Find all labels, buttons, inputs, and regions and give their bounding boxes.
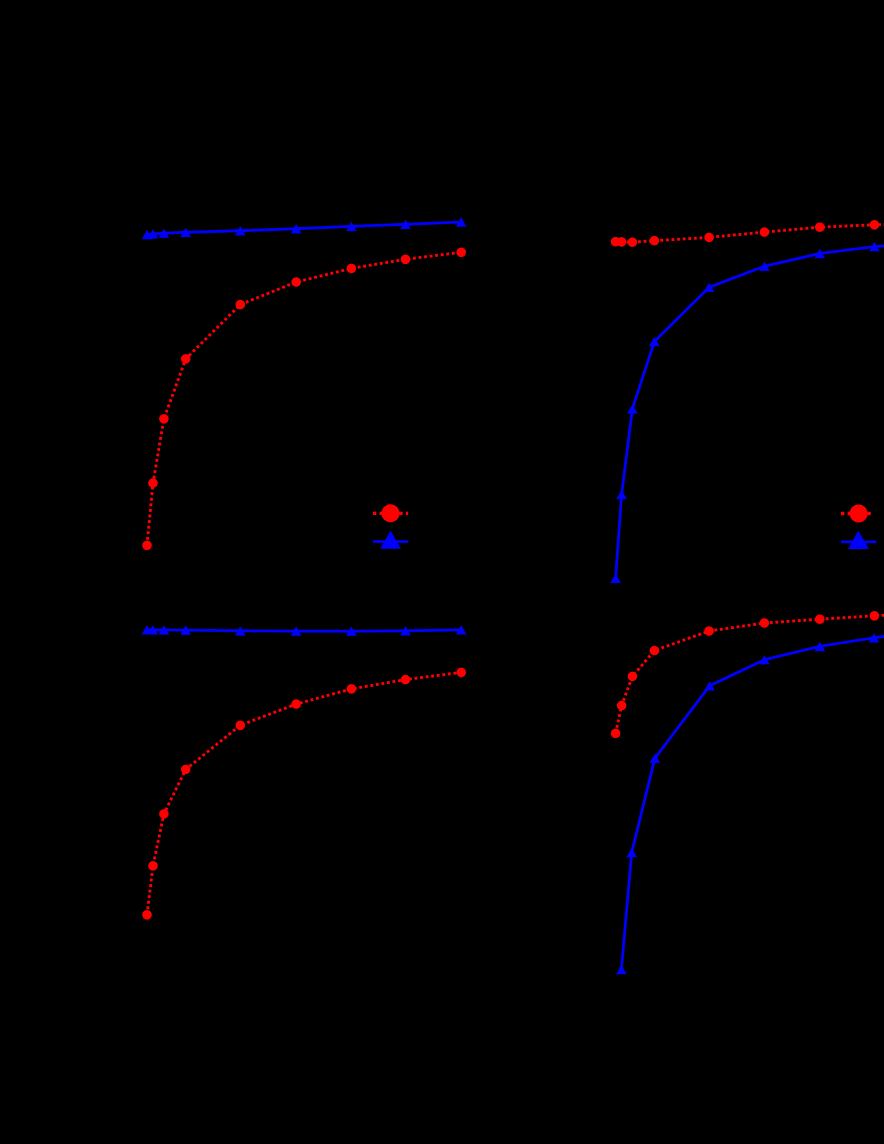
node: top-right legend red entry	[841, 505, 873, 523]
node: top-left red circle markers	[142, 248, 466, 551]
wire: bottom-right blue solid line	[621, 636, 884, 969]
node: top-left blue triangle markers	[142, 217, 467, 239]
node: top-right blue triangle markers	[610, 242, 879, 583]
node: top-right red circle markers	[611, 220, 879, 247]
wire: top-left red dotted line	[147, 252, 461, 545]
wire: bottom-left blue solid line	[147, 630, 461, 631]
wire: top-right blue solid line	[616, 246, 884, 578]
node: top-left legend red entry	[373, 504, 408, 522]
wire: top-right red dotted line	[616, 224, 884, 242]
wire: bottom-right red dotted line	[616, 615, 884, 733]
node: bottom-right red circle markers	[611, 611, 879, 738]
node: top-left legend blue entry	[373, 531, 408, 549]
wire: bottom-left red dotted line	[147, 672, 461, 914]
node: bottom-left blue triangle markers	[142, 625, 467, 636]
wire: top-left blue solid line	[147, 222, 461, 235]
node: bottom-right blue triangle markers	[616, 633, 879, 974]
node: bottom-left red circle markers	[142, 668, 466, 920]
node: top-right legend blue entry	[841, 531, 876, 549]
